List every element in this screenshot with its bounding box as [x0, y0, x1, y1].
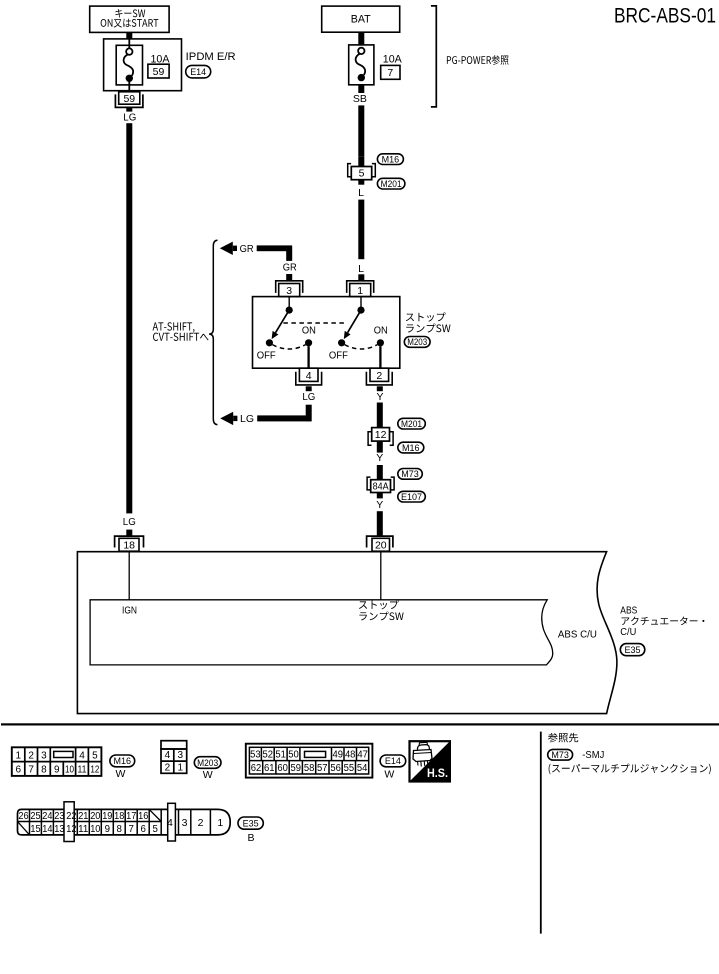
E35 oval label: [238, 817, 263, 829]
svg-text:57: 57: [317, 763, 328, 774]
svg-text:ON: ON: [374, 325, 388, 337]
wire ON-left to pin 4: [307, 346, 309, 368]
connector layout M16: [12, 747, 102, 776]
svg-text:6: 6: [16, 765, 22, 776]
svg-text:M73: M73: [551, 750, 569, 760]
svg-text:B: B: [247, 832, 254, 844]
svg-text:21: 21: [78, 811, 88, 822]
svg-text:58: 58: [304, 763, 315, 774]
wire ON-right to pin 2: [379, 346, 381, 368]
svg-text:5: 5: [153, 824, 158, 835]
svg-text:25: 25: [30, 811, 40, 822]
svg-text:12: 12: [90, 765, 99, 776]
svg-text:12: 12: [66, 824, 76, 835]
stop lamp switch pin 1: [347, 281, 374, 293]
svg-text:17: 17: [126, 811, 136, 822]
svg-text:9: 9: [105, 824, 110, 835]
switch contact right (pin1): [360, 297, 362, 311]
svg-text:53: 53: [250, 750, 261, 761]
svg-text:Y: Y: [376, 391, 383, 403]
GR branch wire vertical: [286, 246, 292, 261]
ABS pin 20: [367, 536, 393, 547]
svg-text:M16: M16: [114, 756, 132, 766]
ABS pin 18: [115, 536, 144, 547]
separator line: [1, 723, 719, 725]
svg-text:5: 5: [92, 750, 98, 761]
M16 oval label: [110, 755, 135, 767]
svg-text:OFF: OFF: [329, 350, 348, 362]
svg-text:60: 60: [277, 763, 288, 774]
fuse number box 7: [381, 65, 400, 79]
LG branch wire vertical: [306, 405, 312, 422]
svg-text:LG: LG: [123, 516, 136, 528]
svg-text:M16: M16: [382, 154, 400, 164]
connector layout E35: [18, 809, 231, 835]
svg-text:M203: M203: [197, 758, 218, 768]
arrow LG to AT-SHIFT: [220, 412, 233, 425]
svg-text:1: 1: [178, 762, 184, 773]
wire key SW to IPDM: [126, 32, 132, 39]
svg-text:18: 18: [114, 811, 124, 822]
svg-text:7: 7: [28, 765, 34, 776]
svg-text:12: 12: [375, 429, 387, 441]
svg-text:2: 2: [198, 817, 204, 829]
connector M16/M201 pin 5: [351, 167, 371, 180]
wire SB down: [358, 105, 364, 156]
svg-text:LG: LG: [240, 413, 254, 425]
connector ref M203 oval: [404, 337, 430, 348]
svg-text:11: 11: [78, 765, 87, 776]
label CVT-SHIFTへ: [153, 333, 208, 341]
wire into conn 5: [358, 156, 364, 166]
svg-text:14: 14: [42, 824, 53, 835]
label PG-POWER参照: [447, 55, 509, 65]
label キーSW: [115, 9, 145, 18]
fuse F59 symbol 10A: [126, 48, 132, 54]
svg-text:22: 22: [66, 811, 76, 822]
svg-text:6: 6: [141, 824, 146, 835]
wire stub above pin 18: [126, 530, 132, 537]
svg-text:3: 3: [286, 285, 292, 297]
svg-text:1: 1: [217, 817, 223, 829]
svg-text:15: 15: [30, 824, 40, 835]
svg-text:GR: GR: [240, 243, 254, 255]
svg-text:M16: M16: [402, 443, 420, 453]
svg-text:20: 20: [375, 540, 387, 552]
svg-text:59: 59: [153, 66, 165, 78]
svg-text:84A: 84A: [373, 480, 389, 492]
svg-text:4: 4: [165, 750, 171, 761]
svg-text:3: 3: [182, 817, 188, 829]
svg-text:10A: 10A: [383, 53, 403, 65]
svg-text:IGN: IGN: [122, 606, 137, 617]
svg-text:LG: LG: [302, 391, 315, 403]
key switch box: [90, 6, 169, 32]
connector ref E107 oval: [398, 491, 426, 502]
brace AT-SHIFT/CVT-SHIFT: [209, 240, 217, 424]
wire fuse to pin: [128, 81, 130, 92]
svg-text:3: 3: [41, 750, 47, 761]
svg-text:49: 49: [333, 750, 344, 761]
svg-text:24: 24: [42, 811, 53, 822]
svg-text:E35: E35: [625, 645, 641, 655]
svg-text:26: 26: [18, 811, 28, 822]
svg-text:19: 19: [102, 811, 112, 822]
svg-text:1: 1: [16, 750, 22, 761]
E14 oval label: [380, 755, 406, 767]
wire stub SB: [358, 85, 364, 93]
svg-text:E14: E14: [385, 756, 401, 766]
label ON又はSTART: [101, 19, 159, 28]
svg-text:8: 8: [117, 824, 122, 835]
svg-text:SB: SB: [353, 93, 367, 105]
svg-text:13: 13: [54, 824, 64, 835]
svg-text:L: L: [358, 187, 364, 199]
wire into fuse: [128, 39, 130, 48]
svg-text:W: W: [203, 769, 213, 781]
connector layout E14: [246, 744, 373, 778]
wire Y to pin 20: [377, 511, 383, 536]
svg-text:LG: LG: [123, 111, 136, 123]
svg-text:ABS: ABS: [620, 605, 637, 616]
fuse F59 body: [116, 45, 142, 85]
fuse number box 59: [148, 64, 169, 78]
wire Y down to conn 12: [377, 403, 383, 428]
svg-text:8: 8: [41, 765, 47, 776]
connector layout M203: [161, 741, 187, 749]
svg-text:Y: Y: [376, 499, 383, 511]
label ストップ (switch): [406, 312, 446, 321]
svg-text:IPDM E/R: IPDM E/R: [186, 51, 236, 63]
svg-text:E107: E107: [401, 492, 422, 502]
wire stub above pin 1: [358, 274, 364, 281]
svg-text:51: 51: [275, 750, 286, 761]
svg-text:56: 56: [330, 763, 341, 774]
reference column divider: [540, 732, 542, 934]
connector ref M16 oval (12): [398, 442, 424, 453]
ABS actuator/CU box: [77, 552, 617, 714]
svg-text:10: 10: [65, 765, 74, 776]
svg-text:9: 9: [54, 765, 60, 776]
wire L down: [358, 200, 364, 260]
stop lamp switch pin 3: [276, 281, 303, 293]
label ストップ (ABS): [359, 600, 399, 609]
svg-text:61: 61: [264, 763, 275, 774]
svg-text:5: 5: [359, 168, 365, 180]
switch contact left (pin3): [288, 297, 290, 311]
svg-text:M201: M201: [381, 179, 402, 189]
inspection mark H.S.: [410, 741, 450, 781]
svg-text:W: W: [115, 768, 125, 780]
ABS C/U inner box: [90, 600, 553, 665]
svg-text:ON: ON: [302, 325, 316, 337]
svg-text:18: 18: [123, 540, 135, 552]
svg-text:10: 10: [90, 824, 101, 835]
wire stub above pin 3: [286, 274, 292, 281]
svg-text:M73: M73: [401, 469, 419, 479]
fuse F7 body: [349, 45, 374, 85]
svg-text:59: 59: [123, 93, 135, 105]
stop lamp switch pin 2: [370, 368, 389, 381]
GR branch wire horizontal: [257, 245, 292, 251]
wire below conn 12: [377, 441, 383, 453]
connector ref M16 oval: [377, 154, 403, 165]
wire pin20 into unit: [380, 551, 382, 600]
svg-text:7: 7: [129, 824, 134, 835]
connector M73/E107 pin 84A: [371, 480, 391, 493]
wire into conn 84A: [377, 465, 383, 480]
wire stub below pin 4: [306, 386, 312, 391]
svg-text:C/U: C/U: [620, 627, 636, 638]
svg-text:62: 62: [251, 763, 262, 774]
svg-text:7: 7: [387, 67, 393, 79]
stop lamp switch body: [253, 297, 400, 369]
svg-text:OFF: OFF: [257, 350, 276, 362]
svg-text:2: 2: [165, 762, 171, 773]
svg-text:11: 11: [78, 824, 88, 835]
svg-text:2: 2: [28, 750, 34, 761]
BAT box: [322, 6, 400, 32]
wire stub below conn 5: [358, 180, 364, 185]
wire stub below 84A: [377, 493, 383, 499]
LG branch wire horizontal: [257, 415, 311, 421]
svg-text:BAT: BAT: [351, 13, 371, 25]
svg-text:E14: E14: [190, 67, 206, 77]
svg-text:52: 52: [263, 750, 274, 761]
wire BAT to fuse: [358, 32, 364, 45]
connector ref M73 oval (SMJ): [548, 749, 573, 760]
svg-text:20: 20: [90, 811, 101, 822]
svg-text:48: 48: [345, 750, 356, 761]
svg-text:50: 50: [288, 750, 299, 761]
svg-text:W: W: [384, 768, 394, 780]
label ランプSW (switch): [406, 324, 450, 333]
svg-text:H.S.: H.S.: [427, 766, 448, 780]
label ランプSW (ABS): [359, 611, 403, 620]
svg-text:-SMJ: -SMJ: [582, 749, 604, 761]
mechanical link dashed: [283, 322, 344, 324]
svg-text:1: 1: [357, 285, 363, 297]
svg-text:23: 23: [54, 811, 64, 822]
reference bracket PG-POWER: [431, 6, 436, 107]
fuse F7 symbol 10A: [358, 48, 364, 54]
svg-text:GR: GR: [283, 262, 297, 274]
IPDM E/R box: [104, 39, 182, 91]
svg-text:M201: M201: [401, 419, 422, 429]
connector ref M201 oval: [377, 178, 405, 189]
connector ref E35 oval: [620, 644, 645, 656]
connector pin 59: [119, 92, 140, 104]
connector ref M73 oval: [398, 469, 423, 480]
wire stub below 59: [126, 107, 132, 111]
arrow GR to AT-SHIFT: [220, 242, 233, 255]
connector ref E14 oval: [186, 65, 211, 78]
svg-text:16: 16: [138, 811, 148, 822]
svg-text:BRC-ABS-01: BRC-ABS-01: [614, 5, 716, 28]
svg-text:E35: E35: [243, 818, 259, 828]
stop lamp switch pin 4: [299, 368, 318, 381]
svg-text:4: 4: [79, 750, 85, 761]
svg-text:4: 4: [167, 817, 173, 829]
wire pin18 into unit: [128, 551, 130, 600]
svg-text:ABS C/U: ABS C/U: [558, 629, 597, 640]
svg-text:47: 47: [357, 750, 368, 761]
label スーパーマルチプルジャンクション: [549, 764, 711, 775]
svg-text:2: 2: [376, 370, 382, 382]
wire LG down left column: [126, 123, 132, 513]
wire stub below pin 2: [377, 386, 383, 391]
label AT-SHIFT,: [153, 322, 195, 332]
svg-text:3: 3: [178, 750, 184, 761]
label 参照先: [548, 733, 578, 743]
label アクチュエーター・: [622, 617, 705, 626]
M203 oval label: [194, 757, 221, 769]
svg-text:Y: Y: [376, 452, 383, 464]
svg-text:L: L: [358, 263, 364, 275]
svg-text:55: 55: [344, 763, 355, 774]
svg-text:4: 4: [306, 370, 312, 382]
connector M201/M16 pin 12: [372, 428, 390, 442]
connector ref M201 oval (12): [398, 418, 426, 429]
svg-text:M203: M203: [407, 337, 427, 347]
svg-text:54: 54: [357, 763, 368, 774]
svg-text:59: 59: [291, 763, 302, 774]
